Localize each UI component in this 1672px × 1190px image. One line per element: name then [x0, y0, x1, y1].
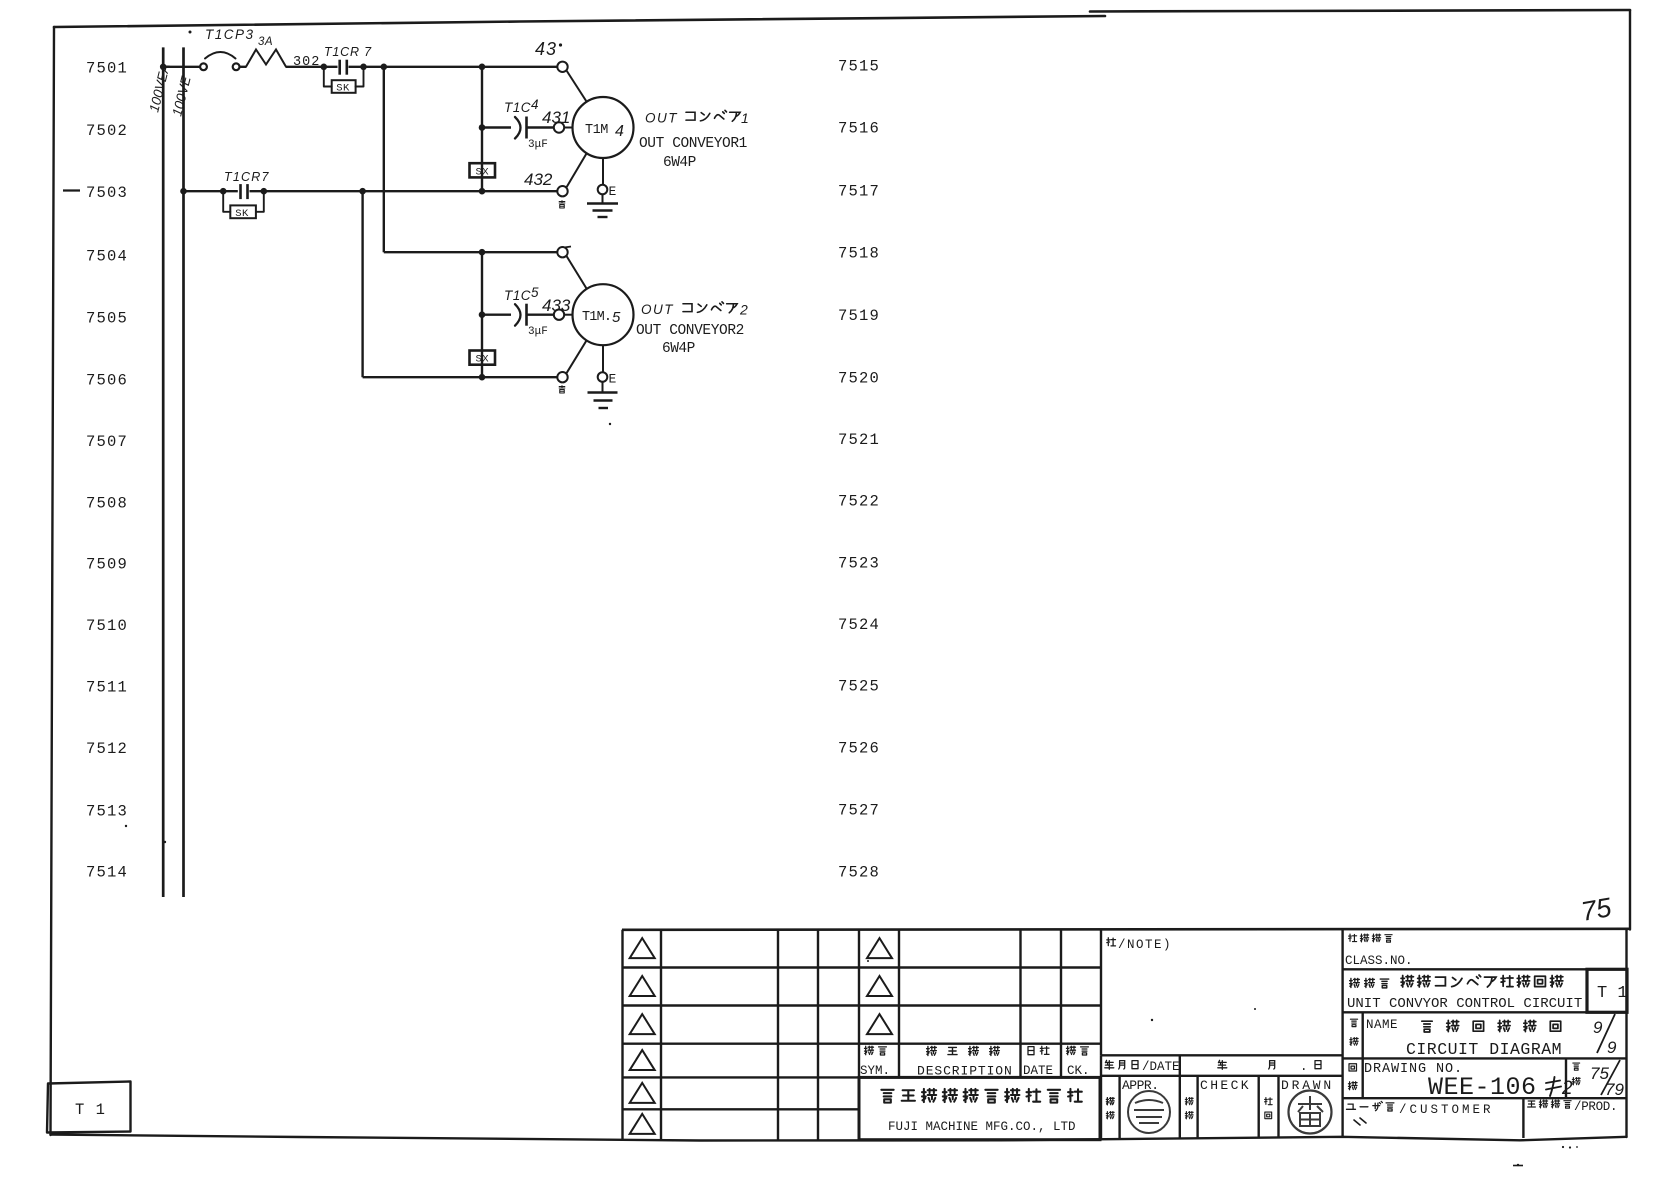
svg-text:T 1: T 1 — [1597, 984, 1628, 1003]
svg-text:7511: 7511 — [86, 679, 128, 697]
svg-text:7520: 7520 — [838, 370, 880, 388]
svg-text:7528: 7528 — [838, 864, 880, 882]
svg-text:2: 2 — [739, 302, 748, 318]
svg-text:DESCRIPTION: DESCRIPTION — [917, 1064, 1013, 1079]
svg-text:9: 9 — [1607, 1038, 1617, 1057]
svg-text:NAME: NAME — [1366, 1018, 1398, 1032]
svg-text:FUJI MACHINE MFG.CO., LTD: FUJI MACHINE MFG.CO., LTD — [888, 1120, 1076, 1134]
svg-text:DATE: DATE — [1023, 1064, 1053, 1078]
svg-text:7521: 7521 — [838, 431, 880, 449]
svg-text:7518: 7518 — [838, 245, 880, 263]
svg-text:T1CP3: T1CP3 — [205, 27, 255, 42]
svg-text:/DATE: /DATE — [1142, 1060, 1180, 1074]
svg-text:4: 4 — [615, 123, 624, 140]
svg-text:6W4P: 6W4P — [663, 155, 696, 171]
svg-text:7517: 7517 — [838, 183, 880, 201]
svg-text:T1CR 7: T1CR 7 — [324, 45, 372, 59]
svg-text:SYM.: SYM. — [860, 1064, 890, 1078]
svg-text:43: 43 — [535, 39, 557, 59]
svg-text:79: 79 — [1605, 1080, 1624, 1099]
svg-text:/PROD.: /PROD. — [1574, 1100, 1617, 1114]
svg-text:7524: 7524 — [838, 616, 880, 634]
svg-text:7510: 7510 — [86, 617, 128, 635]
svg-text:OUT: OUT — [645, 111, 678, 126]
svg-text:1: 1 — [741, 110, 749, 126]
svg-text:432: 432 — [524, 170, 553, 189]
svg-text:7503: 7503 — [86, 184, 128, 202]
svg-text:4: 4 — [531, 97, 539, 112]
svg-text:UNIT CONVYOR CONTROL CIRCUIT: UNIT CONVYOR CONTROL CIRCUIT — [1347, 996, 1582, 1012]
svg-text:/CUSTOMER: /CUSTOMER — [1399, 1103, 1494, 1117]
svg-text:T1CR7: T1CR7 — [224, 170, 270, 184]
svg-text:OUT: OUT — [641, 302, 674, 317]
svg-text:431: 431 — [542, 108, 570, 127]
svg-text:7513: 7513 — [86, 803, 128, 821]
svg-text:OUT CONVEYOR2: OUT CONVEYOR2 — [636, 323, 744, 339]
svg-text:7512: 7512 — [86, 740, 128, 758]
svg-text:7501: 7501 — [86, 60, 128, 78]
svg-text:7526: 7526 — [838, 740, 880, 758]
svg-text:T1C: T1C — [504, 288, 531, 303]
svg-text:9: 9 — [1593, 1018, 1603, 1037]
svg-text:7506: 7506 — [86, 372, 128, 390]
svg-text:5: 5 — [531, 285, 539, 300]
svg-text:3μF: 3μF — [528, 139, 548, 151]
svg-text:7504: 7504 — [86, 248, 128, 266]
svg-text:SX: SX — [476, 166, 490, 178]
svg-text:SK: SK — [235, 208, 249, 220]
svg-text:T1C: T1C — [504, 100, 531, 115]
svg-text:75: 75 — [1579, 892, 1615, 927]
svg-text:T 1: T 1 — [75, 1101, 106, 1119]
svg-text:T1M.: T1M. — [582, 310, 611, 325]
svg-text:6W4P: 6W4P — [662, 341, 695, 357]
svg-text:WEE-106: WEE-106 — [1428, 1073, 1537, 1102]
svg-text:7509: 7509 — [86, 556, 128, 574]
svg-text:E: E — [609, 372, 617, 387]
svg-text:7516: 7516 — [838, 120, 880, 138]
svg-text:5: 5 — [612, 309, 621, 326]
svg-text:302: 302 — [293, 55, 320, 70]
svg-text:CLASS.NO.: CLASS.NO. — [1345, 954, 1413, 968]
svg-text:7525: 7525 — [838, 678, 880, 696]
svg-text:7505: 7505 — [86, 310, 128, 328]
svg-text:3A: 3A — [258, 36, 273, 48]
svg-text:CHECK: CHECK — [1200, 1078, 1251, 1093]
svg-text:OUT CONVEYOR1: OUT CONVEYOR1 — [639, 136, 747, 152]
svg-text:CK.: CK. — [1067, 1064, 1090, 1078]
svg-text:SX: SX — [476, 354, 490, 366]
svg-text:7515: 7515 — [838, 58, 880, 76]
svg-text:/NOTE): /NOTE) — [1118, 938, 1172, 952]
svg-text:E: E — [609, 184, 617, 199]
svg-text:7508: 7508 — [86, 495, 128, 513]
svg-text:7522: 7522 — [838, 493, 880, 511]
svg-text:3μF: 3μF — [528, 326, 548, 338]
svg-text:7514: 7514 — [86, 864, 128, 882]
svg-text:7519: 7519 — [838, 307, 880, 325]
svg-text:7523: 7523 — [838, 555, 880, 573]
svg-text:SK: SK — [336, 83, 350, 95]
svg-text:7502: 7502 — [86, 122, 128, 140]
svg-text:7507: 7507 — [86, 433, 128, 451]
svg-text:T1M: T1M — [585, 123, 608, 138]
svg-text:433: 433 — [542, 296, 571, 315]
svg-text:CIRCUIT DIAGRAM: CIRCUIT DIAGRAM — [1406, 1040, 1562, 1059]
svg-text:.: . — [1300, 1060, 1308, 1074]
svg-text:7527: 7527 — [838, 802, 880, 820]
